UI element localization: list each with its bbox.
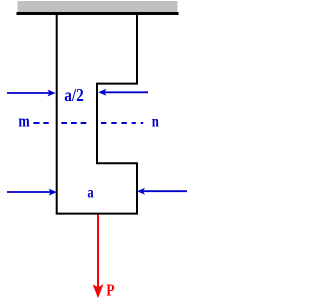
arrow right a [137,188,187,195]
arrow left a/2 [7,90,56,97]
ceiling line [17,12,179,15]
bar outline (stepped bar with notch) [57,15,137,214]
arrow left a [7,189,57,196]
svg-text:a: a [87,184,93,202]
ceiling gray slab [18,1,178,12]
svg-text:a/2: a/2 [64,85,84,105]
svg-text:m: m [18,112,29,131]
svg-text:P: P [106,281,114,300]
svg-text:n: n [152,113,159,131]
arrow right a/2 [98,89,148,96]
load arrow P (red) [93,215,104,299]
section m-n dashed centerline [33,122,143,124]
